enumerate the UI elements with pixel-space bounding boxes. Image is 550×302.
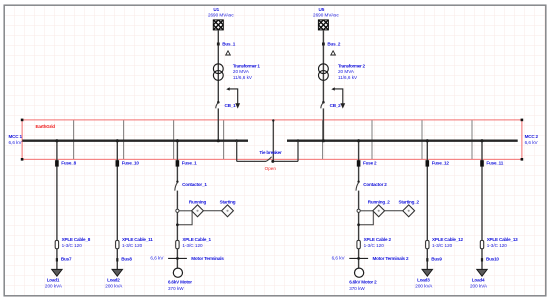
svg-text:Load3: Load3: [417, 277, 430, 282]
svg-text:Fuse_8: Fuse_8: [61, 161, 76, 166]
svg-text:Motor Terminals 2: Motor Terminals 2: [373, 256, 409, 261]
svg-text:1-3/C 120: 1-3/C 120: [122, 243, 143, 248]
svg-text:U5: U5: [318, 7, 324, 12]
svg-text:370 kW: 370 kW: [168, 286, 184, 291]
svg-text:2690 MVAsc: 2690 MVAsc: [208, 13, 234, 18]
svg-text:MCC 2: MCC 2: [525, 134, 539, 139]
svg-text:6,6 kV: 6,6 kV: [525, 140, 539, 145]
svg-text:20 MVA: 20 MVA: [338, 69, 355, 74]
svg-text:Bus9: Bus9: [431, 257, 442, 262]
svg-text:6.6kV Motor: 6.6kV Motor: [168, 280, 192, 285]
svg-text:Fuse_1: Fuse_1: [182, 161, 197, 166]
svg-text:Load1: Load1: [47, 277, 60, 282]
svg-text:Load2: Load2: [107, 277, 120, 282]
svg-text:EarthGrid: EarthGrid: [36, 124, 56, 129]
svg-text:200 kVA: 200 kVA: [470, 283, 488, 288]
svg-text:Running: Running: [189, 199, 207, 204]
svg-text:Fuse_12: Fuse_12: [432, 161, 450, 166]
svg-text:Transformer 2: Transformer 2: [338, 63, 365, 68]
svg-text:Bus_2: Bus_2: [327, 41, 340, 46]
svg-text:Fuse_11: Fuse_11: [486, 161, 503, 166]
svg-text:11/6,6 kV: 11/6,6 kV: [233, 75, 253, 80]
svg-text:Contactor 2: Contactor 2: [363, 182, 387, 187]
svg-text:XPLE Cable 2: XPLE Cable 2: [364, 237, 392, 242]
svg-text:Bus8: Bus8: [121, 257, 132, 262]
svg-text:U1: U1: [213, 7, 219, 12]
svg-text:Transformer 1: Transformer 1: [233, 63, 260, 68]
svg-text:Load4: Load4: [472, 277, 485, 282]
svg-text:CB_2: CB_2: [330, 103, 342, 108]
svg-text:Motor Terminals: Motor Terminals: [191, 256, 224, 261]
svg-text:CB_1: CB_1: [225, 103, 237, 108]
svg-text:Bus_1: Bus_1: [222, 41, 235, 46]
svg-text:XPLE Cable_13: XPLE Cable_13: [487, 237, 518, 242]
svg-text:6.6kV Motor 2: 6.6kV Motor 2: [349, 280, 377, 285]
svg-text:200 kVA: 200 kVA: [45, 283, 63, 288]
svg-text:Starting: Starting: [220, 199, 236, 204]
svg-text:XPLE Cable_12: XPLE Cable_12: [432, 237, 463, 242]
svg-text:Open: Open: [265, 166, 277, 171]
svg-text:11/6,6 kV: 11/6,6 kV: [338, 75, 358, 80]
svg-text:200 kVA: 200 kVA: [105, 283, 123, 288]
svg-text:Starting_2: Starting_2: [398, 199, 419, 204]
svg-text:1-3/C 120: 1-3/C 120: [487, 243, 508, 248]
svg-text:XPLE Cable_8: XPLE Cable_8: [62, 237, 91, 242]
svg-text:Fuse_10: Fuse_10: [122, 161, 140, 166]
svg-text:Fuse 2: Fuse 2: [363, 161, 377, 166]
svg-text:Bus10: Bus10: [486, 257, 499, 262]
svg-text:370 kW: 370 kW: [349, 286, 365, 291]
svg-text:200 kVA: 200 kVA: [415, 283, 433, 288]
svg-text:6,6 kV: 6,6 kV: [332, 256, 346, 261]
svg-text:Tie breaker: Tie breaker: [259, 150, 282, 155]
svg-text:Contactor_1: Contactor_1: [182, 182, 207, 187]
svg-text:6,6 kV: 6,6 kV: [150, 256, 164, 261]
svg-text:1-3/C 120: 1-3/C 120: [364, 243, 385, 248]
svg-text:2690 MVAsc: 2690 MVAsc: [313, 13, 339, 18]
svg-text:XPLE Cable_1: XPLE Cable_1: [182, 237, 211, 242]
svg-text:1-3/C 120: 1-3/C 120: [62, 243, 83, 248]
svg-text:Bus7: Bus7: [61, 257, 72, 262]
svg-text:1-3/C 120: 1-3/C 120: [432, 243, 453, 248]
svg-text:XPLE Cable_11: XPLE Cable_11: [122, 237, 153, 242]
svg-text:1-3/C 120: 1-3/C 120: [182, 243, 203, 248]
svg-text:Running_2: Running_2: [368, 199, 391, 204]
svg-text:20 MVA: 20 MVA: [233, 69, 250, 74]
svg-text:MCC 1: MCC 1: [9, 134, 23, 139]
svg-text:6,6 kV: 6,6 kV: [9, 140, 23, 145]
